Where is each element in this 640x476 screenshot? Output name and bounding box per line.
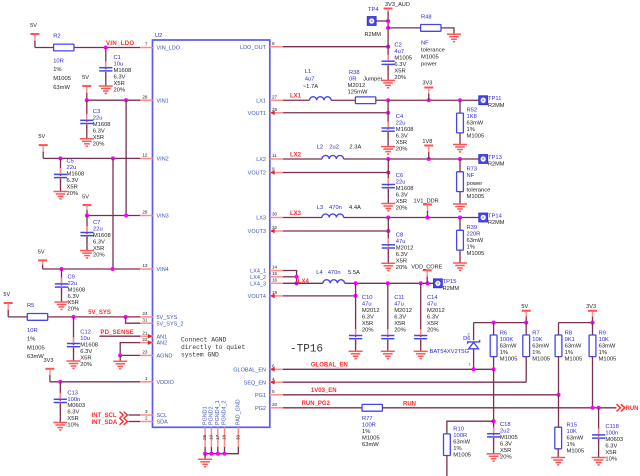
svg-text:NF: NF (421, 40, 429, 46)
wire C6 to ground (387, 189, 389, 204)
pin 29 VIN3 (140, 210, 169, 220)
wire C1 to ground (105, 72, 107, 86)
power 5V (5V_SYS) (3, 292, 12, 317)
svg-text:M1005: M1005 (394, 56, 412, 62)
net label LX4 (298, 279, 310, 285)
wire C4 stem (387, 100, 389, 129)
net label LX1 (290, 94, 302, 100)
junction VOUT1/C4 (386, 111, 390, 115)
svg-text:VDD_CORE: VDD_CORE (411, 264, 442, 270)
wire C7 stem (86, 216, 88, 235)
power 5V (VIN1) (82, 75, 91, 100)
svg-text:10K: 10K (532, 337, 542, 343)
wire C7 to ground (86, 237, 88, 251)
ground under C4 (381, 147, 395, 154)
svg-text:5V_SYS_2: 5V_SYS_2 (157, 321, 184, 327)
pin 32 VOUT3 (248, 225, 283, 235)
svg-text:C118: C118 (605, 424, 618, 430)
wire R9 bottom stem (592, 357, 594, 408)
ground under C6 (381, 204, 395, 211)
svg-text:29: 29 (142, 210, 148, 215)
svg-text:TP14: TP14 (488, 213, 503, 219)
pin 18 PGND4_2 (222, 400, 228, 447)
svg-text:1: 1 (145, 376, 148, 381)
wire net LX4 (283, 282, 323, 284)
svg-text:LX4_3: LX4_3 (250, 281, 266, 287)
power 1V1_DDR (414, 198, 439, 217)
ground AGND (113, 361, 127, 368)
svg-text:RUN_PG2: RUN_PG2 (302, 401, 331, 407)
svg-text:M1005: M1005 (500, 357, 518, 363)
svg-text:10%: 10% (67, 423, 79, 429)
svg-text:21: 21 (142, 330, 148, 335)
svg-text:M1608: M1608 (93, 122, 111, 128)
wire net SEQ_EN (283, 381, 526, 383)
wire C8 to ground (387, 249, 389, 263)
svg-text:LDO_OUT: LDO_OUT (240, 45, 267, 51)
svg-text:1%: 1% (467, 244, 475, 250)
svg-text:22u: 22u (68, 281, 78, 287)
net label LX3 (290, 211, 302, 217)
svg-text:X5R: X5R (396, 258, 407, 264)
wire R8 bottom stem (558, 357, 560, 395)
net label INT_SDA (92, 420, 118, 426)
junction PGND4_1 (216, 452, 220, 456)
junction VOUT4/C10 (354, 294, 358, 298)
svg-text:6.3V: 6.3V (114, 75, 126, 81)
svg-text:5V: 5V (30, 23, 37, 29)
junction VIN_LDO/C1 (104, 45, 108, 49)
svg-text:PAD_GND: PAD_GND (236, 399, 242, 425)
svg-text:1K8: 1K8 (467, 114, 477, 120)
ground under C1 (99, 86, 113, 93)
resistor R10 (444, 427, 472, 459)
svg-text:C9: C9 (68, 274, 75, 280)
svg-text:5V: 5V (38, 134, 45, 140)
svg-text:6.3V: 6.3V (500, 441, 512, 447)
pin 33 PAD_GND (235, 399, 241, 447)
svg-text:100n: 100n (67, 397, 80, 403)
svg-text:INT_SDA: INT_SDA (92, 420, 118, 426)
resistor R7 (523, 331, 550, 363)
junction rail1/R52 (458, 98, 462, 102)
svg-text:LX1: LX1 (256, 98, 266, 104)
wire net SCL (129, 414, 141, 416)
svg-text:63mW: 63mW (565, 344, 582, 350)
svg-text:R15: R15 (567, 423, 578, 429)
wire C18 to ground (493, 438, 495, 454)
svg-text:R39: R39 (467, 225, 478, 231)
svg-text:6.3V: 6.3V (394, 62, 406, 68)
pin 2 SDA (140, 416, 169, 426)
svg-text:470n: 470n (328, 270, 341, 276)
power 3V3 (VDDIO) (44, 358, 55, 382)
svg-text:VIN4: VIN4 (157, 267, 169, 273)
junction rail3/C8 (386, 215, 390, 219)
wire R52 to ground (459, 133, 461, 145)
port chevron INT_SCL (120, 412, 128, 419)
net label GLOBAL_EN (311, 363, 348, 369)
svg-text:M1608: M1608 (80, 342, 98, 348)
svg-text:10R: 10R (53, 59, 64, 65)
svg-text:6.3V: 6.3V (362, 314, 374, 320)
svg-text:1V8: 1V8 (422, 139, 432, 145)
junction VOUT3/C8 (386, 229, 390, 233)
junction LX4_3 (295, 281, 299, 285)
junction VDDIO/C13 (58, 380, 62, 384)
svg-text:R73: R73 (467, 166, 478, 172)
svg-text:6.3V: 6.3V (93, 128, 105, 134)
junction rail2/C6 (386, 157, 390, 161)
wire R9 top stem (592, 323, 594, 335)
svg-text:20%: 20% (500, 454, 512, 460)
svg-text:63mW: 63mW (467, 238, 484, 244)
svg-text:12: 12 (142, 153, 148, 158)
svg-text:27: 27 (272, 94, 278, 99)
wire C8 stem (387, 218, 389, 247)
svg-text:C12: C12 (80, 330, 91, 336)
svg-text:470n: 470n (329, 205, 342, 211)
svg-text:M1005: M1005 (467, 251, 485, 257)
svg-text:C5: C5 (67, 159, 74, 165)
junction GLOBAL_EN/D6 (472, 367, 476, 371)
svg-text:3V3: 3V3 (422, 81, 432, 87)
junction rail2/R73 (458, 157, 462, 161)
capacitor C7 (80, 220, 110, 258)
svg-text:10u: 10u (114, 62, 124, 68)
svg-text:63mW: 63mW (453, 440, 470, 446)
svg-text:PD_SENSE: PD_SENSE (100, 330, 134, 336)
wire C11 stem (387, 283, 389, 337)
junction PGND1 (203, 452, 207, 456)
svg-text:VIN_LDO: VIN_LDO (157, 46, 181, 52)
wire L1 to R38 (331, 99, 355, 101)
wire C118 to ground (598, 439, 600, 457)
junction 5V_SYS/C12 (71, 315, 75, 319)
svg-text:C3: C3 (93, 109, 100, 115)
svg-text:VIN_LDO: VIN_LDO (106, 41, 134, 47)
svg-text:20%: 20% (362, 327, 374, 333)
wire net VIN4 (43, 268, 140, 270)
svg-text:SEQ_EN: SEQ_EN (244, 380, 266, 386)
svg-text:14: 14 (272, 265, 278, 270)
svg-text:M1608: M1608 (93, 233, 111, 239)
svg-text:4u7: 4u7 (394, 49, 404, 55)
svg-text:5V: 5V (82, 75, 89, 81)
wire R73 to ground (459, 192, 461, 204)
svg-text:M1608: M1608 (396, 127, 414, 133)
svg-text:AN2: AN2 (157, 341, 168, 347)
svg-text:M1005: M1005 (565, 357, 583, 363)
wire net 1V1_DDR rail3 (344, 217, 479, 219)
svg-text:R2MM: R2MM (365, 32, 382, 38)
svg-text:10K: 10K (599, 337, 609, 343)
svg-text:M1005: M1005 (567, 449, 585, 455)
pin 17 PGND4_1 (215, 400, 221, 447)
capacitor C3 (80, 109, 110, 147)
svg-text:6.3V: 6.3V (68, 294, 80, 300)
ground under C5 (54, 192, 68, 199)
wire PGND bus (205, 447, 238, 454)
wire to R48 (388, 27, 421, 29)
wire net RUN (382, 407, 616, 409)
pin 12 VIN2 (140, 153, 169, 163)
power 5V (pullups) (521, 304, 530, 322)
svg-text:7: 7 (145, 42, 148, 47)
capacitor C1 (99, 55, 131, 93)
svg-text:AGND: AGND (157, 354, 173, 360)
svg-text:X5R: X5R (605, 450, 616, 456)
power VDD_CORE (411, 264, 442, 283)
wire net SDA (129, 421, 141, 423)
wire 5V pullup bus (474, 322, 527, 324)
diode D6 BAT54XV2T5G (430, 332, 480, 366)
svg-text:R2MM: R2MM (443, 286, 460, 292)
svg-text:63mW: 63mW (27, 354, 44, 360)
resistor R6 (490, 331, 517, 363)
svg-text:LX2: LX2 (256, 157, 266, 163)
svg-text:13: 13 (142, 263, 148, 268)
svg-text:M1608: M1608 (68, 287, 86, 293)
junction LDO_OUT (386, 45, 390, 49)
svg-text:R2MM: R2MM (488, 162, 505, 168)
wire net VOUT2 (283, 172, 388, 174)
svg-text:X5R: X5R (93, 135, 104, 141)
svg-text:63mW: 63mW (532, 344, 549, 350)
svg-text:LX1: LX1 (290, 94, 302, 100)
svg-text:M2012: M2012 (394, 308, 412, 314)
wire C18 riser (493, 369, 495, 435)
svg-text:20%: 20% (394, 327, 406, 333)
svg-text:26: 26 (202, 434, 207, 440)
junction RUN/R9 (590, 406, 594, 410)
svg-text:VOUT3: VOUT3 (248, 229, 266, 235)
ground under R52 (453, 145, 467, 152)
svg-text:31: 31 (142, 317, 148, 322)
svg-text:VOUT1: VOUT1 (248, 111, 266, 117)
svg-text:18: 18 (222, 434, 227, 440)
wire R15 to ground (557, 449, 559, 458)
ground under C7 (80, 251, 94, 258)
wire D6 top (473, 323, 475, 341)
svg-text:LX4_1: LX4_1 (250, 269, 266, 275)
wire net LDO_OUT (283, 46, 388, 48)
wire R10 branch (447, 421, 494, 434)
svg-text:X5R: X5R (396, 140, 407, 146)
wire TP4 (375, 20, 388, 22)
svg-text:10u: 10u (80, 336, 90, 342)
capacitor C4 (382, 114, 414, 152)
wire net VIN2 (43, 157, 140, 159)
power 3V3_AUD (384, 2, 410, 14)
svg-text:~1.7A: ~1.7A (303, 84, 318, 90)
svg-text:directly to quiet: directly to quiet (181, 344, 245, 351)
svg-text:1%: 1% (467, 127, 475, 133)
wire AGND to ground (119, 355, 121, 361)
capacitor C14 (414, 295, 445, 345)
capacitor C12 (67, 330, 98, 368)
capacitor C6 (382, 173, 414, 211)
junction 1V03_EN/R8/R15 (556, 393, 560, 397)
capacitor C118 (592, 424, 623, 463)
svg-text:220R: 220R (467, 231, 481, 237)
capacitor C11 (381, 295, 412, 345)
svg-text:20%: 20% (68, 307, 80, 313)
wire 5V_SYS to pin31 (126, 317, 140, 323)
svg-text:5: 5 (272, 389, 275, 394)
svg-text:22u: 22u (67, 165, 77, 171)
svg-text:X5R: X5R (394, 68, 405, 74)
svg-text:2: 2 (145, 416, 148, 421)
svg-text:R77: R77 (362, 416, 373, 422)
resistor R2 (53, 34, 74, 91)
wire C5 to ground (60, 179, 62, 192)
svg-text:10K: 10K (567, 429, 577, 435)
svg-text:AN1: AN1 (157, 334, 168, 340)
svg-text:SDA: SDA (157, 420, 169, 426)
svg-text:VIN3: VIN3 (157, 214, 169, 220)
svg-text:X5R: X5R (427, 321, 438, 327)
ground under R73 (453, 204, 467, 211)
svg-text:6.3V: 6.3V (67, 178, 79, 184)
svg-text:R2: R2 (53, 34, 60, 40)
pin 24 5V_SYS (140, 311, 178, 321)
junction VOUT2/C6 (386, 170, 390, 174)
svg-text:M2012: M2012 (348, 83, 366, 89)
ground under C118 (592, 458, 606, 465)
svg-text:100R: 100R (362, 423, 376, 429)
junction AGND (118, 353, 122, 357)
power 5V (VIN4) (38, 250, 47, 269)
svg-text:28: 28 (142, 94, 148, 99)
junction rail4/C11 (386, 281, 390, 285)
ground under R48 (447, 34, 461, 41)
net label LX2 (290, 152, 302, 158)
pin 5 PG1 (255, 389, 283, 399)
ground under C13 (53, 423, 67, 430)
wire C6 stem (387, 159, 389, 186)
wire R7 bottom stem (525, 357, 527, 383)
port chevron INT_SDA (120, 418, 128, 425)
pin 22 AN2 (140, 337, 168, 347)
svg-text:C14: C14 (427, 295, 438, 301)
wire net 1V8 rail2 (344, 158, 479, 160)
pin 16 LX4_3 (250, 278, 283, 288)
wire C3 stem (86, 100, 88, 122)
junction rail2/1V8 (427, 157, 431, 161)
svg-text:16: 16 (272, 278, 278, 283)
svg-text:power: power (421, 61, 437, 67)
svg-text:2u2: 2u2 (500, 428, 510, 434)
pin 23 AGND (140, 350, 173, 360)
inductor L4 (316, 270, 360, 283)
resistor R8 (555, 331, 582, 363)
pin 28 VIN1 (140, 94, 169, 104)
svg-text:20%: 20% (394, 75, 406, 81)
svg-text:1: 1 (469, 363, 471, 367)
pin 25 VOUT1 (248, 107, 283, 117)
svg-text:100n: 100n (605, 431, 618, 437)
svg-text:C6: C6 (396, 173, 403, 179)
capacitor C10 (349, 295, 380, 345)
svg-text:6.3V: 6.3V (93, 240, 105, 246)
junction bus/R6 (492, 321, 496, 325)
resistor R38 (348, 70, 383, 104)
svg-text:M1005: M1005 (532, 357, 550, 363)
wire net VOUT3 (283, 230, 388, 232)
resistor R9 (589, 331, 616, 363)
svg-text:R6: R6 (500, 331, 507, 337)
svg-text:LX3: LX3 (290, 211, 302, 217)
svg-text:R7: R7 (532, 331, 539, 337)
svg-text:PG1: PG1 (255, 393, 266, 399)
svg-text:32: 32 (272, 225, 278, 230)
inductor L2 (317, 145, 362, 159)
svg-text:RUN: RUN (626, 406, 639, 412)
wire 5V to R2 (35, 47, 54, 49)
svg-text:C7: C7 (93, 220, 100, 226)
svg-text:24: 24 (142, 311, 148, 316)
svg-text:3: 3 (145, 409, 148, 414)
power 1V8 (422, 139, 433, 159)
svg-text:PG2: PG2 (255, 406, 266, 412)
svg-text:5V_SYS: 5V_SYS (88, 310, 111, 316)
wire net VDDIO (50, 381, 140, 383)
svg-text:20%: 20% (396, 146, 408, 152)
svg-text:C11: C11 (394, 295, 404, 301)
svg-text:23: 23 (142, 350, 148, 355)
net label PD_SENSE (100, 330, 134, 336)
wire C10 to ground (355, 340, 357, 352)
svg-text:100R: 100R (453, 433, 467, 439)
svg-text:1%: 1% (599, 350, 607, 356)
wire C11 to ground (387, 340, 389, 352)
svg-text:6.3V: 6.3V (396, 252, 408, 258)
wire net RUN_PG2 (283, 407, 362, 409)
svg-text:R48: R48 (421, 14, 432, 20)
wire C14 stem (420, 283, 422, 337)
svg-text:47u: 47u (362, 301, 372, 307)
svg-text:TP13: TP13 (488, 155, 502, 161)
wire C14 to ground (420, 340, 422, 352)
capacitor C18 (487, 422, 518, 461)
ground under C18 (487, 454, 501, 461)
junction rail1/C4 (386, 98, 390, 102)
svg-text:C10: C10 (362, 295, 373, 301)
power 3V3 (pullups) (586, 304, 597, 322)
svg-text:3V3_AUD: 3V3_AUD (385, 2, 410, 8)
svg-text:C4: C4 (396, 114, 404, 120)
svg-text:R2MM: R2MM (488, 103, 505, 109)
wire C10 stem (355, 283, 357, 337)
svg-text:63mW: 63mW (362, 442, 379, 448)
svg-text:power: power (467, 181, 483, 187)
svg-text:PGND2: PGND2 (209, 406, 215, 425)
junction rail4/VDD_CORE (425, 281, 429, 285)
svg-text:M1005: M1005 (27, 345, 45, 351)
wire net VIN1 (87, 99, 140, 101)
svg-text:VOUT4: VOUT4 (248, 294, 266, 300)
svg-text:6.3V: 6.3V (67, 410, 79, 416)
svg-text:11: 11 (272, 153, 277, 158)
junction rail3/1V1_DDR (425, 215, 429, 219)
svg-text:X5R: X5R (500, 448, 511, 454)
ground under C8 (381, 263, 395, 270)
test point TP4 (365, 7, 382, 38)
svg-text:63mW: 63mW (467, 121, 484, 127)
pin 1 VDDIO (140, 376, 175, 386)
svg-text:X5R: X5R (67, 416, 78, 422)
